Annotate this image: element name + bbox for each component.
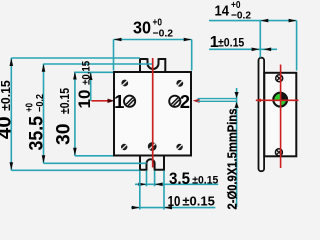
flange plate xyxy=(259,58,265,172)
svg-text:+0: +0 xyxy=(153,16,163,28)
screw bottom-left xyxy=(121,144,127,150)
svg-text:1: 1 xyxy=(114,91,124,112)
svg-text:±0.15: ±0.15 xyxy=(58,88,72,114)
dim text 10 +-0.15 (rotated) xyxy=(75,61,94,109)
svg-text:35.5: 35.5 xyxy=(27,116,48,151)
dim text 10 +-0.15 bottom xyxy=(168,194,215,210)
bottom mounting tab xyxy=(140,156,164,170)
svg-text:2-Ø0.9X1.5mmPins: 2-Ø0.9X1.5mmPins xyxy=(226,109,240,210)
svg-text:10: 10 xyxy=(75,90,94,109)
side body xyxy=(264,73,296,157)
svg-text:30: 30 xyxy=(53,124,74,146)
svg-text:−0.2: −0.2 xyxy=(231,9,251,21)
terminal 1 xyxy=(124,96,135,107)
centerline vertical red xyxy=(152,58,154,168)
dim text 30 +-0.15 (rotated) xyxy=(53,88,74,145)
side centerline horizontal red xyxy=(255,99,299,102)
svg-text:±0.15: ±0.15 xyxy=(182,195,215,209)
bottom tab slot xyxy=(147,159,155,170)
red arrow right of label 2 xyxy=(193,99,200,103)
dim text 35.5 +0 -0.2 (rotated) xyxy=(24,94,48,151)
side screw top xyxy=(276,75,283,82)
svg-text:±0.15: ±0.15 xyxy=(192,175,218,187)
dim text 1 +-0.15 xyxy=(210,34,245,51)
body outline xyxy=(114,72,191,156)
green mounting hole xyxy=(273,93,287,107)
top tab notch xyxy=(148,58,159,69)
screw top-right xyxy=(176,80,183,87)
svg-text:30: 30 xyxy=(133,17,151,37)
svg-text:2: 2 xyxy=(180,91,190,112)
svg-text:3.5: 3.5 xyxy=(169,169,190,188)
screw bottom-right xyxy=(176,144,182,150)
screw top-left xyxy=(121,80,128,87)
dim text 40 +-0.15 (rotated) xyxy=(0,80,15,139)
centerline terminal row red left xyxy=(92,99,115,103)
svg-text:±0.15: ±0.15 xyxy=(0,80,13,111)
side centerline vertical red xyxy=(280,65,282,169)
svg-text:−0.2: −0.2 xyxy=(34,94,46,112)
svg-text:40: 40 xyxy=(0,116,15,139)
dim text 3.5 +-0.15 xyxy=(169,169,218,188)
svg-text:10: 10 xyxy=(168,194,181,210)
terminal 2 xyxy=(169,96,180,107)
svg-text:±0.15: ±0.15 xyxy=(218,36,245,50)
svg-text:14: 14 xyxy=(215,4,230,20)
svg-text:−0.2: −0.2 xyxy=(153,28,174,40)
svg-text:±0.15: ±0.15 xyxy=(80,61,92,85)
dim text 14 +0 -0.2 xyxy=(215,0,252,21)
top mounting tab xyxy=(140,59,165,71)
dim text 30 +0 -0.2 xyxy=(133,16,173,39)
side screw bottom xyxy=(275,149,282,156)
bottom center hole xyxy=(148,142,157,151)
